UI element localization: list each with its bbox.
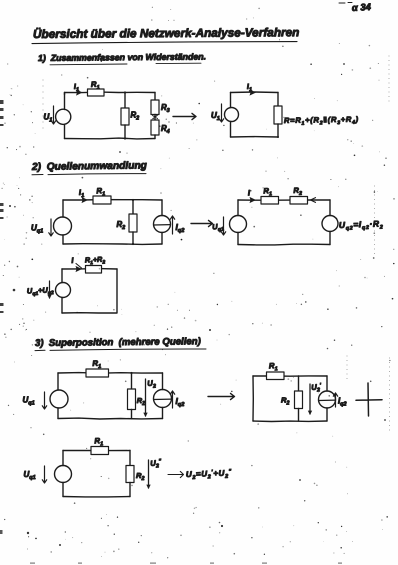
svg-text:3) Superposition (mehrere Qu: 3) Superposition (mehrere Quellen) bbox=[35, 336, 201, 349]
label R4 bbox=[161, 124, 170, 135]
current source Iq2 (2a) bbox=[154, 200, 171, 244]
label R1 (3a) bbox=[92, 359, 101, 371]
label U1 with arrow bbox=[44, 106, 56, 124]
junction dots (2a) bbox=[132, 199, 134, 245]
resistor R1 (2b) bbox=[261, 197, 279, 205]
label R2 (3b) bbox=[281, 396, 289, 407]
label U1 with arrow (1b) bbox=[211, 104, 224, 122]
junction dots on R2 branch bbox=[124, 91, 126, 139]
current source Iq2 (3a) bbox=[154, 373, 172, 419]
resistor R1+R2 (2c) bbox=[86, 266, 102, 274]
resistor R1 bbox=[88, 89, 105, 96]
label R2 bbox=[131, 111, 140, 122]
resistor R2 (3a shunt) bbox=[128, 373, 136, 419]
voltage arrow U2 (3a) bbox=[143, 379, 147, 417]
wire: circuit 3b left side bbox=[252, 376, 254, 421]
label I (2c) bbox=[71, 256, 75, 265]
label R2 (2a) bbox=[117, 220, 126, 231]
plus sign (superposition) bbox=[356, 383, 382, 416]
svg-text:Übersicht über die Netzwerk-An: Übersicht über die Netzwerk-Analyse-Verf… bbox=[33, 25, 299, 41]
label Uq1 with arrow (2a) bbox=[31, 219, 53, 236]
wire: circuit 2b top bbox=[238, 199, 330, 201]
heading: 3) Superposition (mehrere Quellen) (underlined) bbox=[35, 336, 206, 350]
svg-text:2) Quellenumwandlung: 2) Quellenumwandlung bbox=[31, 160, 148, 173]
resistor R2 (2b) bbox=[290, 197, 308, 205]
voltage source Uq1 (2a) bbox=[54, 200, 72, 244]
small left arrowhead on wire (2b) bbox=[311, 198, 316, 203]
label I1 (2a) bbox=[79, 188, 85, 200]
label R1 (2a) bbox=[96, 186, 105, 198]
resistor R (equivalent) bbox=[274, 93, 282, 138]
voltage source Uq2 (2b right) bbox=[322, 200, 338, 245]
label Uq1 with arrow (3c) bbox=[24, 466, 47, 483]
arrow: superposition split bbox=[208, 393, 235, 399]
label Uq1+Uq2 with arrow bbox=[27, 281, 54, 299]
wire: circuit 2a bottom bbox=[63, 243, 162, 246]
wire: circuit 2c top bbox=[62, 268, 117, 270]
subtitle: 1) Zusammenfassen von Widerständen bbox=[38, 52, 206, 65]
wire: circuit 3b top bbox=[253, 375, 327, 377]
junction kink between R3 and R4 bbox=[153, 115, 158, 118]
wire: circuit 3c bottom bbox=[63, 496, 130, 498]
voltage arrow U2&#34; (3c) bbox=[146, 460, 150, 489]
resistor R3 bbox=[151, 93, 159, 115]
wire: circuit 1a top bbox=[65, 92, 156, 94]
current arrow I1 (2a) bbox=[82, 197, 89, 203]
voltage source U1 bbox=[56, 93, 71, 139]
voltage source U1 (1b) bbox=[225, 93, 239, 138]
resistor R2 (2a shunt) bbox=[129, 200, 137, 244]
current source Iq2 (3b) bbox=[319, 376, 336, 421]
wire: circuit 3c top bbox=[63, 450, 130, 452]
wire: circuit 1a bottom bbox=[65, 137, 156, 140]
value label R=R1+(R2||(R3+R4)) bbox=[284, 115, 359, 127]
current arrow I (2c) bbox=[76, 264, 83, 273]
label R2 (3a) bbox=[137, 396, 145, 407]
wire: circuit 3a bottom bbox=[58, 417, 163, 420]
wire: circuit 2c right + bottom bbox=[62, 269, 117, 313]
resistor R2 (shunt branch) bbox=[121, 93, 129, 139]
label Iq2 with up arrow (3a) bbox=[170, 391, 185, 408]
label I (2b) bbox=[248, 188, 252, 197]
current arrow I1 (1b) bbox=[250, 89, 257, 95]
arrow: transformation 2 bbox=[191, 220, 213, 226]
voltage source Uq1 (2b left) bbox=[230, 200, 247, 245]
label R2 (2b) bbox=[293, 186, 302, 198]
label Iq2 with up arrow (2a) bbox=[170, 216, 185, 234]
svg-text:1) Zusammenfassen von Widerst: 1) Zusammenfassen von Widerständen. bbox=[38, 52, 206, 63]
label R3 bbox=[161, 103, 170, 114]
title: Übersicht über die Netzwerk-Analyse-Verfahren (underlined) bbox=[32, 25, 299, 43]
wire: circuit 2b bottom bbox=[238, 243, 330, 246]
arrow: simplification 1 bbox=[173, 113, 196, 119]
resistor R1 (2a) bbox=[93, 196, 111, 204]
voltage source Uq1+Uq2 (2c) bbox=[56, 269, 71, 313]
resistor R4 bbox=[151, 115, 159, 139]
resistor R1 (3c) bbox=[91, 447, 109, 455]
label R1 bbox=[91, 80, 100, 92]
label R1+R2 bbox=[85, 254, 106, 266]
wire: circuit 3a top bbox=[58, 372, 163, 375]
page number "α 34" bbox=[339, 2, 372, 14]
value label Uq2 = Iq2 · R2 bbox=[339, 218, 384, 232]
label R1 (2b) bbox=[263, 186, 272, 198]
resistor R1 (3b) bbox=[267, 372, 285, 380]
label U2&#34; (3c) bbox=[150, 458, 162, 470]
label Uq1 with arrow (3a) bbox=[23, 392, 47, 409]
wire: circuit 1b bottom bbox=[231, 136, 280, 138]
label R1 (3b) bbox=[269, 361, 278, 373]
label R1 (3c) bbox=[94, 436, 103, 448]
label R2 (3c) bbox=[136, 471, 144, 482]
result label: -> U2 = U2&#39; + U2&#34; bbox=[168, 468, 232, 481]
wire: circuit 3b bottom bbox=[253, 420, 327, 423]
label Iq2 with up arrow (3b) bbox=[333, 393, 346, 408]
label Uq1 with arrow (between) bbox=[212, 217, 226, 235]
resistor R2 (3b shunt) bbox=[295, 376, 303, 421]
heading: 2) Quellenumwandlung (underlined) bbox=[31, 160, 148, 174]
voltage source Uq1 (3c) bbox=[55, 451, 72, 497]
current arrow I (2b) bbox=[250, 197, 257, 203]
resistor R2 (3c) bbox=[126, 451, 134, 497]
wire: circuit 2a top bbox=[63, 199, 162, 201]
label I1 bbox=[74, 82, 80, 94]
label U2&#39; (3b) bbox=[311, 382, 322, 394]
voltage arrow U2&#39; (3b) bbox=[308, 384, 312, 415]
wire: circuit 1b top bbox=[231, 91, 279, 94]
resistor R1 (3a) bbox=[86, 369, 109, 377]
label U2 (3a) bbox=[147, 378, 156, 390]
label I1 (1b) bbox=[247, 82, 253, 94]
voltage source Uq1 (3a) bbox=[50, 373, 68, 419]
svg-text:α 34: α 34 bbox=[352, 2, 372, 14]
junction dot (3a) bbox=[130, 372, 132, 374]
current arrow I1 bbox=[76, 89, 83, 95]
